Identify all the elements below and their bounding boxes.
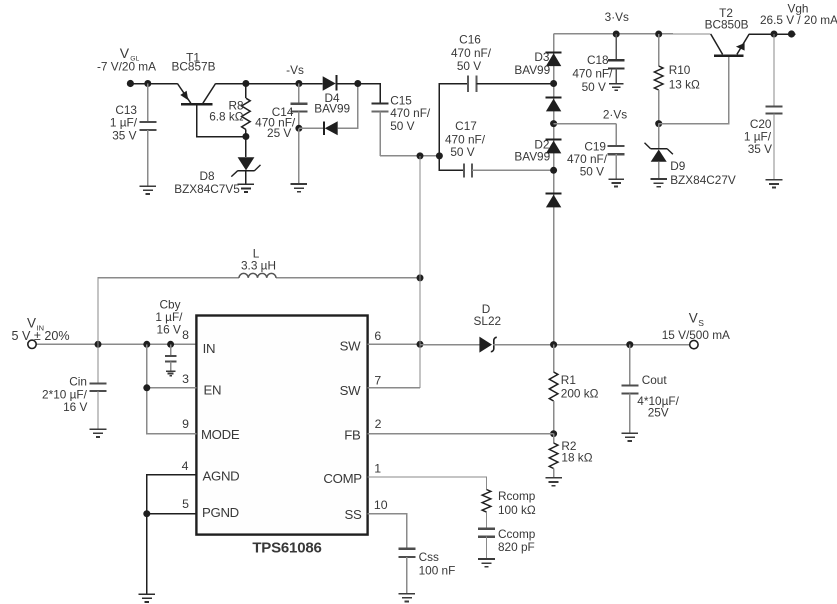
svg-text:25 V: 25 V [267, 126, 291, 140]
svg-text:16 V: 16 V [157, 323, 181, 337]
svg-text:50 V: 50 V [580, 164, 604, 178]
diode D9 zener [658, 124, 660, 149]
svg-text:820 pF: 820 pF [498, 540, 535, 554]
svg-text:C18: C18 [587, 53, 609, 67]
diode D4 (BAV99 top) [323, 76, 336, 91]
wire 3Vs rail [554, 33, 711, 35]
svg-text:50 V: 50 V [457, 59, 481, 73]
capacitor C20 [773, 34, 775, 107]
node C17 right junction [550, 167, 557, 174]
capacitor Ccomp [478, 528, 495, 530]
wire C14 to ground [298, 128, 300, 183]
svg-text:EN: EN [204, 383, 222, 398]
svg-text:2*10 µF/: 2*10 µF/ [42, 387, 88, 401]
resistor Rcomp [482, 490, 491, 513]
svg-text:Cout: Cout [642, 373, 668, 387]
svg-text:7: 7 [374, 374, 381, 388]
transistor T1 [181, 103, 213, 106]
node EN branch junction [143, 341, 150, 348]
wire SW6 stub [368, 343, 420, 345]
capacitor Cby [170, 344, 172, 356]
wire node to C15 [358, 84, 380, 104]
resistor R10 [658, 34, 660, 66]
diode D3 (BAV99 top) [546, 51, 562, 53]
svg-text:6.8 kΩ: 6.8 kΩ [209, 109, 244, 123]
svg-text:BAV99: BAV99 [314, 102, 350, 116]
node C20 top [771, 31, 778, 38]
diode D3 (BAV99 bottom) [546, 97, 562, 99]
svg-text:10: 10 [374, 498, 388, 512]
wire COMP [368, 477, 487, 490]
capacitor Cin [97, 344, 99, 383]
svg-text:3·Vs: 3·Vs [605, 10, 629, 24]
ground Css [399, 593, 416, 595]
svg-text:Ccomp: Ccomp [498, 527, 536, 541]
svg-text:5 V ± 20%: 5 V ± 20% [12, 329, 70, 343]
ground D9 [650, 178, 667, 180]
node L right junction [417, 274, 424, 281]
ground PGND [139, 593, 156, 595]
node PGND junction [143, 510, 150, 517]
svg-text:BAV99: BAV99 [514, 150, 550, 164]
svg-text:C15: C15 [390, 93, 412, 107]
ground C14 [291, 183, 308, 185]
node 2Vs junction [550, 120, 557, 127]
wire C16/C17 left bend [439, 84, 468, 171]
svg-text:470 nF/: 470 nF/ [572, 66, 613, 80]
capacitor C18 [615, 34, 617, 60]
wire C17 right to chain [472, 169, 554, 171]
node SW pump junction [417, 152, 424, 159]
node T1 base / R8 bottom [242, 133, 249, 140]
svg-text:100 nF: 100 nF [419, 563, 456, 577]
capacitor C19 [615, 124, 617, 146]
capacitor C15 [372, 102, 389, 104]
svg-text:6: 6 [374, 329, 381, 343]
ground Cout [622, 432, 639, 434]
capacitor C16 [467, 75, 469, 91]
svg-text:TPS61086: TPS61086 [252, 539, 321, 556]
svg-text:50 V: 50 V [450, 145, 474, 159]
svg-text:26.5 V / 20 mA: 26.5 V / 20 mA [760, 13, 837, 27]
ground C20 [766, 179, 783, 181]
ground Cby [166, 370, 176, 372]
svg-text:35 V: 35 V [112, 128, 136, 142]
wire rail T1 to D4 [216, 83, 323, 85]
node SW junction [417, 341, 424, 348]
wire SW vertical [419, 156, 421, 388]
ground Ccomp [478, 558, 495, 560]
svg-text:15 V/500 mA: 15 V/500 mA [662, 328, 730, 342]
svg-text:5: 5 [182, 497, 189, 511]
node Cby junction [167, 341, 174, 348]
node EN junction [143, 384, 150, 391]
wire T1 base to node [197, 106, 246, 137]
svg-text:18 kΩ: 18 kΩ [561, 450, 592, 464]
ground R2 [545, 477, 562, 479]
svg-text:C16: C16 [459, 33, 481, 47]
svg-text:-7 V/20 mA: -7 V/20 mA [97, 60, 156, 74]
resistor R2 [553, 434, 555, 443]
svg-text:-Vs: -Vs [286, 63, 304, 77]
svg-text:BAV99: BAV99 [514, 63, 550, 77]
svg-text:BZX84C7V5: BZX84C7V5 [174, 182, 240, 196]
capacitor Cout [629, 345, 631, 386]
node Cout top [626, 341, 633, 348]
svg-text:9: 9 [182, 417, 189, 431]
node D4 cathode junction [354, 80, 361, 87]
svg-text:S: S [698, 318, 704, 328]
svg-text:FB: FB [344, 428, 361, 443]
wire T2 base [659, 57, 729, 124]
node C13 junction [144, 80, 151, 87]
wire SS [368, 514, 407, 549]
svg-text:SL22: SL22 [474, 314, 502, 328]
wire 2Vs [554, 123, 617, 125]
svg-text:R10: R10 [669, 63, 691, 77]
resistor R1 [553, 345, 555, 372]
svg-text:COMP: COMP [323, 471, 362, 486]
node C16/C17 left junction [436, 152, 443, 159]
terminal VS [690, 340, 698, 348]
ground D8 [238, 183, 255, 185]
svg-text:1: 1 [374, 462, 381, 476]
svg-text:AGND: AGND [203, 469, 240, 484]
svg-text:R1: R1 [561, 373, 576, 387]
svg-text:8: 8 [182, 328, 189, 342]
wire EN/MODE branch [147, 344, 197, 388]
node R1 top [550, 341, 557, 348]
wire AGND/PGND branch [147, 475, 197, 514]
svg-text:13 kΩ: 13 kΩ [669, 77, 700, 91]
svg-text:SW: SW [340, 339, 361, 354]
wire inductor net [98, 278, 239, 344]
svg-text:SW: SW [340, 383, 361, 398]
ground C13 [140, 185, 157, 187]
wire VGL rail to T1 emitter [130, 83, 177, 85]
node R10 top [655, 31, 662, 38]
svg-text:470 nF/: 470 nF/ [451, 46, 492, 60]
diode D2 (BAV99 top) [546, 139, 562, 141]
capacitor C17 [463, 163, 465, 177]
svg-text:D9: D9 [670, 159, 685, 173]
svg-text:200 kΩ: 200 kΩ [561, 386, 599, 400]
wire C15 bottom to junctions [380, 155, 439, 157]
wire chain vertical [553, 34, 555, 345]
svg-text:3: 3 [182, 372, 189, 386]
transistor T2 [714, 54, 744, 57]
resistor R8 [245, 84, 247, 99]
node -Vs [295, 80, 302, 87]
diode D SL22 [479, 337, 492, 353]
node FB junction [550, 430, 557, 437]
svg-text:V: V [689, 311, 698, 326]
svg-text:50 V: 50 V [390, 119, 414, 133]
ground Cin [90, 428, 107, 430]
diode D8 zener [245, 137, 247, 158]
svg-text:100 kΩ: 100 kΩ [498, 503, 536, 517]
wire SW7 stub [368, 387, 420, 389]
IC U1 TPS61086 box [196, 316, 367, 535]
inductor L [239, 273, 276, 277]
node Cin junction [95, 341, 102, 348]
svg-text:2·Vs: 2·Vs [603, 107, 627, 121]
svg-text:4: 4 [182, 459, 189, 473]
node VGL terminal (filled) [127, 80, 134, 87]
svg-text:35 V: 35 V [748, 142, 772, 156]
node C14 bottom [295, 125, 302, 132]
node C16 right junction [550, 80, 557, 87]
svg-text:16 V: 16 V [63, 400, 87, 414]
ground C18 [609, 83, 623, 85]
svg-text:BC850B: BC850B [705, 18, 749, 32]
node R10/D9 junction [655, 120, 662, 127]
wire VIN-row left [36, 343, 196, 345]
terminal VIN [28, 340, 36, 348]
wire FB [368, 433, 554, 435]
capacitor C14 [298, 84, 300, 104]
svg-text:Rcomp: Rcomp [498, 489, 536, 503]
wire C16 right to chain [476, 83, 553, 85]
svg-text:IN: IN [203, 341, 216, 356]
svg-text:SS: SS [345, 507, 362, 522]
svg-text:C17: C17 [455, 119, 477, 133]
node R8 top [242, 80, 249, 87]
wire SW to D [420, 344, 479, 346]
svg-text:BC857B: BC857B [172, 60, 216, 74]
svg-text:PGND: PGND [202, 505, 239, 520]
diode D2 (BAV99 bottom) [546, 193, 562, 195]
capacitor C13 [147, 84, 149, 122]
diode D4 (BAV99 bottom) [299, 127, 324, 129]
wire D to VS [493, 344, 690, 346]
svg-text:BZX84C27V: BZX84C27V [670, 173, 736, 187]
svg-text:2: 2 [375, 417, 382, 431]
wire Vgh [749, 33, 795, 35]
capacitor Css [398, 548, 415, 550]
node C18 top [613, 31, 620, 38]
svg-text:MODE: MODE [201, 427, 240, 442]
svg-text:50 V: 50 V [582, 80, 606, 94]
svg-text:Css: Css [419, 550, 439, 564]
svg-text:3.3 µH: 3.3 µH [241, 259, 276, 273]
svg-text:25V: 25V [648, 405, 669, 419]
node Vgh terminal (filled) [788, 30, 795, 37]
ground C19 [608, 178, 624, 180]
